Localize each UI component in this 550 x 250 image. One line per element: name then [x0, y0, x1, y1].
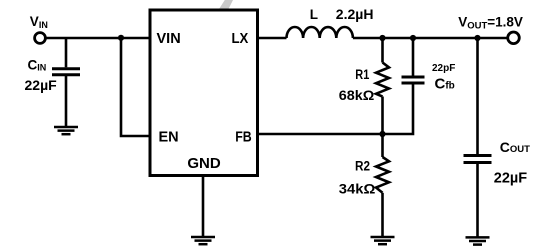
svg-text:EN: EN	[159, 130, 179, 146]
ground (CIN)	[54, 127, 78, 134]
wire input rail VIN	[46, 37, 150, 40]
wire R1 bottom	[381, 97, 384, 135]
wire EN branch	[121, 38, 150, 136]
wire FB rail	[258, 133, 383, 136]
svg-text:Cfb: Cfb	[435, 76, 455, 93]
resistor R2	[376, 157, 389, 193]
wire R1 top	[381, 38, 384, 63]
svg-text:COUT: COUT	[500, 139, 530, 155]
svg-text:34kΩ: 34kΩ	[339, 181, 376, 196]
svg-text:FB: FB	[235, 130, 252, 146]
wire LX to inductor	[258, 37, 287, 40]
ground (IC GND)	[191, 237, 215, 244]
watermark swoosh	[219, 0, 233, 9]
wire R2 top	[381, 134, 384, 157]
svg-text:22µF: 22µF	[494, 170, 527, 186]
wire COUT top	[476, 38, 479, 154]
terminal VOUT circle	[508, 32, 520, 44]
wire R2 bottom	[381, 193, 384, 237]
wire output rail	[353, 37, 508, 40]
svg-text:CIN: CIN	[28, 57, 47, 72]
svg-text:68kΩ: 68kΩ	[339, 88, 375, 103]
node junction EN/VIN	[118, 35, 124, 41]
svg-text:VIN: VIN	[157, 31, 181, 47]
wire Cfb bottom	[383, 85, 414, 135]
inductor L	[287, 27, 353, 38]
svg-text:R1: R1	[355, 67, 369, 82]
node junction R1	[379, 35, 385, 41]
op-amp-style IC body U1	[150, 10, 258, 176]
svg-text:VIN: VIN	[30, 14, 48, 30]
svg-text:22pF: 22pF	[432, 63, 455, 74]
wire Cfb top	[412, 38, 415, 76]
svg-text:VOUT=1.8V: VOUT=1.8V	[458, 15, 523, 32]
terminal VIN circle	[35, 33, 46, 44]
node junction FB	[379, 131, 385, 137]
capacitor Cfb	[402, 77, 425, 83]
svg-text:2.2µH: 2.2µH	[336, 6, 374, 22]
wire CIN branch top	[65, 38, 68, 67]
svg-text:GND: GND	[187, 155, 221, 172]
svg-text:22µF: 22µF	[25, 77, 58, 93]
capacitor COUT	[464, 156, 492, 163]
capacitor CIN	[52, 69, 80, 75]
node junction Cfb	[410, 35, 416, 41]
ground (COUT)	[466, 237, 490, 244]
svg-text:L: L	[310, 7, 318, 22]
wire CIN branch bottom	[65, 76, 68, 127]
svg-text:R2: R2	[355, 159, 370, 174]
wire IC GND	[202, 176, 205, 238]
node junction COUT	[474, 35, 480, 41]
svg-text:LX: LX	[232, 31, 249, 47]
ground (R2)	[371, 237, 395, 244]
wire COUT bottom	[476, 164, 479, 237]
resistor R1	[376, 63, 389, 97]
